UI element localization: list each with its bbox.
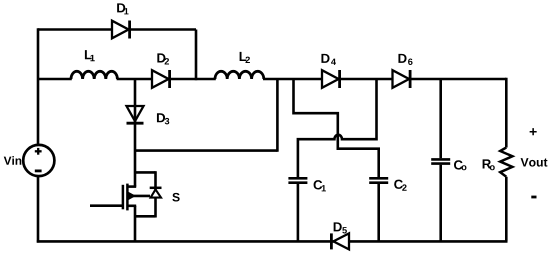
transistor S gate bar <box>122 185 125 210</box>
label D1 <box>117 3 128 14</box>
label plus output <box>530 128 537 135</box>
diode D2 <box>152 70 170 88</box>
label L1 <box>85 50 95 61</box>
label C1 <box>314 180 326 191</box>
wire L2 output vertical drop <box>276 79 279 152</box>
body diode of S <box>150 188 162 198</box>
transistor S channel bar <box>126 184 129 211</box>
diode D1 <box>112 21 130 39</box>
wire C2 bottom lead <box>377 184 380 242</box>
label Vin <box>4 156 22 165</box>
inductor L2 <box>215 71 264 79</box>
wire body-diode loop top <box>135 171 156 174</box>
wire body-diode loop bottom <box>135 215 156 218</box>
wire Co bottom lead <box>439 165 442 242</box>
transistor S drain tap <box>127 185 136 188</box>
wire bottom ground rail <box>37 240 508 243</box>
wire source vertical to ground rail <box>134 206 137 242</box>
label D6 <box>398 54 412 65</box>
diode D4 <box>322 70 340 88</box>
wire body-diode loop right vertical <box>154 171 157 217</box>
capacitor Co <box>431 159 450 163</box>
label C2 <box>394 180 406 191</box>
label minus output <box>531 196 536 199</box>
label D2 <box>157 53 169 64</box>
wire Co top lead <box>439 79 442 158</box>
wire C1 bottom lead <box>297 184 300 242</box>
wire node B to C1 with crossover hop (D4 cathode loop) <box>298 79 377 177</box>
diode D5 <box>331 233 349 249</box>
wire D3 vertical (main bus to MOSFET drain) <box>134 79 137 187</box>
wire node A to C2 (D4 anode loop) <box>294 79 379 177</box>
capacitor C1 <box>288 178 307 182</box>
wire main bus: input node to L1 <box>38 78 72 81</box>
resistor Ro <box>500 78 512 242</box>
label L2 <box>240 52 250 63</box>
transistor S body line with arrow <box>127 192 150 199</box>
wire left rail top (input node to Vin plus) <box>37 28 40 145</box>
label D4 <box>321 54 336 65</box>
wire main bus: L2 to output corner through D4 D6 <box>263 78 506 81</box>
capacitor C2 <box>369 178 388 182</box>
transistor S source tap <box>127 205 136 208</box>
diode D6 <box>393 70 411 88</box>
inductor L1 <box>71 71 117 79</box>
voltage source Vin <box>23 145 54 176</box>
wire main bus: L1 to L2 through D2 <box>117 78 216 81</box>
wire D1 branch right vertical drop <box>195 30 198 81</box>
wire drain horizontal (T junction to L2 output) <box>135 149 277 152</box>
transistor S (MOSFET) gate lead <box>90 204 122 207</box>
wire left rail bottom (Vin minus to ground rail) <box>37 176 40 243</box>
label Vout <box>521 158 548 167</box>
label D3 <box>157 113 169 124</box>
wire top D1 branch horizontal <box>38 28 196 31</box>
label S <box>172 193 179 202</box>
diode D3 <box>127 106 144 123</box>
label Co <box>454 160 466 170</box>
label Ro <box>483 159 495 170</box>
label D5 <box>334 222 347 233</box>
